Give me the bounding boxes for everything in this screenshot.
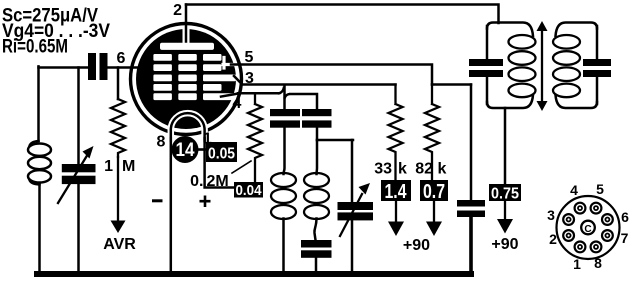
AVR arrow xyxy=(117,157,119,222)
svg-text:4: 4 xyxy=(233,95,242,112)
svg-text:1: 1 xyxy=(104,158,113,175)
anode bar xyxy=(160,43,214,50)
svg-text:k: k xyxy=(438,161,447,178)
svg-text:8: 8 xyxy=(157,134,166,151)
plus xyxy=(200,196,211,208)
capacitor C6 on right frame xyxy=(457,200,485,217)
wire node to varcap2 xyxy=(317,139,353,142)
svg-text:+90: +90 xyxy=(491,236,518,253)
svg-text:0.7: 0.7 xyxy=(423,181,445,203)
wire coil to ground rail xyxy=(38,184,41,273)
wire pin1 xyxy=(205,138,234,188)
transformer T1 secondary coil xyxy=(315,140,318,174)
svg-text:k: k xyxy=(398,161,407,178)
svg-text:3: 3 xyxy=(245,70,254,87)
wire cathode to ground xyxy=(170,138,173,272)
socket outline xyxy=(557,196,620,259)
transformer T1 primary coil xyxy=(271,173,296,187)
arrow 0.7 to +90 xyxy=(433,201,435,224)
wire right frame xyxy=(470,85,473,201)
tube U1 envelope xyxy=(131,24,242,135)
wire tuning branch down xyxy=(77,68,80,165)
wire T1 primary to ground xyxy=(282,219,285,273)
box 0.75 xyxy=(489,184,521,201)
svg-text:7: 7 xyxy=(621,230,629,246)
svg-text:AVR: AVR xyxy=(103,236,136,253)
wire pin2 anode lead xyxy=(185,5,188,44)
svg-text:6: 6 xyxy=(621,209,629,225)
resistor R2 0.2M xyxy=(248,93,262,181)
transformer T2 secondary loop xyxy=(556,23,598,37)
ground rail xyxy=(37,271,471,277)
box 1.4 xyxy=(381,180,411,201)
box 0.05 xyxy=(206,142,237,162)
wire screen branch to right frame xyxy=(432,83,471,86)
wire pin6 input xyxy=(39,66,139,69)
capacitor C7 xyxy=(469,59,503,77)
arrow 1.4 to +90 xyxy=(395,201,397,224)
wire T2 to 0.75 xyxy=(504,108,507,184)
capacitor C5 bottom xyxy=(301,240,332,258)
arrow 0.75 to +90 xyxy=(504,201,506,224)
wire pin4 xyxy=(221,88,317,109)
svg-text:5: 5 xyxy=(596,181,604,197)
wire pin5 screen xyxy=(231,65,432,85)
wire pin3 drop to cap xyxy=(283,86,286,110)
box 0.7 xyxy=(420,180,448,201)
capacitor C-grid (series input cap) xyxy=(88,53,108,80)
minus xyxy=(152,199,163,202)
socket pins xyxy=(563,203,613,253)
svg-text:5: 5 xyxy=(245,49,254,66)
cathode dome xyxy=(171,113,205,141)
wire 1M branch xyxy=(117,68,120,100)
svg-text:2M: 2M xyxy=(207,173,229,190)
svg-text:0.04: 0.04 xyxy=(236,182,263,199)
resistor R4 82k xyxy=(425,85,439,181)
grid bars xyxy=(153,54,236,100)
svg-text:0.: 0. xyxy=(190,173,203,190)
0.2M leader line xyxy=(232,161,251,173)
svg-text:0.05: 0.05 xyxy=(208,146,235,163)
wire top rail (anode pin2 to IF transformer) xyxy=(186,5,499,24)
box 0.04 xyxy=(234,182,263,198)
coupling arrow T2 xyxy=(541,27,543,105)
grid bracket to pin5 xyxy=(223,58,234,69)
resistor R3 33k xyxy=(389,85,403,181)
svg-text:M: M xyxy=(122,158,135,175)
svg-text:C: C xyxy=(584,224,591,235)
svg-text:1.4: 1.4 xyxy=(385,181,408,203)
svg-text:+90: +90 xyxy=(403,237,430,254)
svg-text:2: 2 xyxy=(549,231,557,247)
wire antenna branch down xyxy=(37,66,40,141)
svg-text:0.75: 0.75 xyxy=(491,186,519,203)
variable capacitor CV1 xyxy=(62,164,96,184)
capacitor C3 (left mid) xyxy=(270,109,300,128)
wire stub to 0.05 xyxy=(196,148,206,151)
wire T1 secondary down to C5 xyxy=(314,219,316,241)
inductor L1 antenna coil xyxy=(30,141,39,146)
anode entry slot xyxy=(183,26,190,45)
cathode disc 14 xyxy=(172,136,199,163)
wire varcap to ground rail xyxy=(77,184,80,272)
resistor R1 1M xyxy=(111,99,125,157)
wire cap C3 to coil xyxy=(284,128,285,174)
svg-text:33: 33 xyxy=(374,161,392,178)
svg-text:4: 4 xyxy=(570,182,578,198)
svg-text:6: 6 xyxy=(117,50,126,67)
capacitor C4 (right mid) xyxy=(302,109,332,128)
svg-text:82: 82 xyxy=(415,161,433,178)
capacitor C8 xyxy=(583,59,611,77)
tube electrode assembly (black disc) xyxy=(136,29,236,129)
svg-text:1: 1 xyxy=(573,256,581,272)
cathode dome white channel xyxy=(171,113,205,141)
wire pin3 xyxy=(234,76,396,85)
wire C4 to node xyxy=(316,128,319,140)
svg-text:14: 14 xyxy=(176,140,195,161)
svg-text:Ri=0.65M: Ri=0.65M xyxy=(2,37,68,58)
svg-text:2: 2 xyxy=(173,2,182,19)
transformer T2 primary loop xyxy=(487,23,533,37)
svg-text:8: 8 xyxy=(594,255,602,271)
svg-text:3: 3 xyxy=(547,207,555,223)
variable capacitor CV2 xyxy=(351,140,354,202)
